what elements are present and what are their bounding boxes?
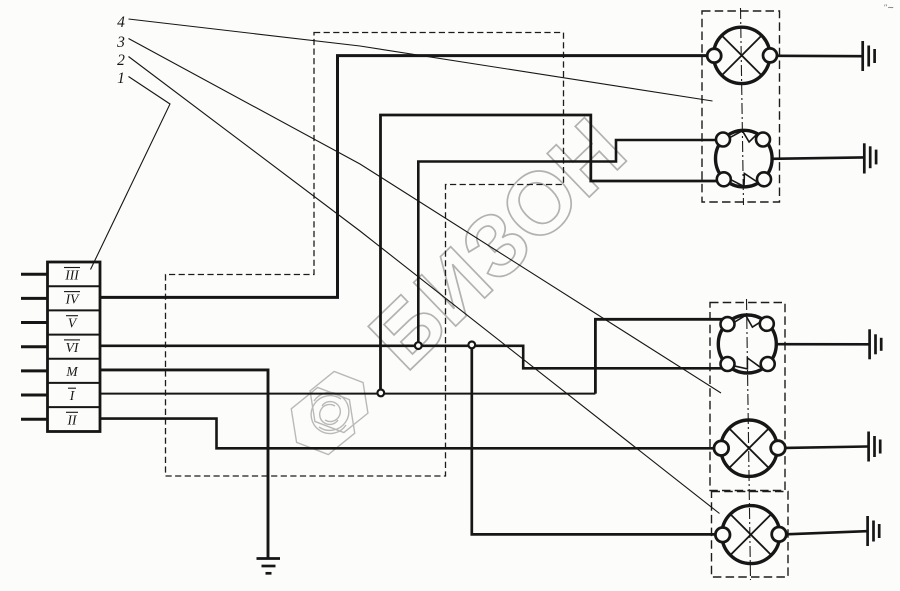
svg-text:1: 1 <box>117 70 125 87</box>
wire connector pin II to lamp L4 <box>100 419 715 449</box>
wire lamp L1 to ground G1 <box>777 54 862 57</box>
wire node J3 riser to lamp L2 lower filament <box>381 115 719 394</box>
axis centerline top lamps <box>741 8 744 205</box>
dashed lamp box bottom (lamp 5) <box>712 492 789 578</box>
watermark BIZON logo <box>281 366 378 461</box>
wire connector pin IV to lamp L1 <box>100 56 708 298</box>
junction node J3 <box>377 390 384 397</box>
leader line 1 <box>91 77 171 270</box>
leader line 2 <box>129 57 720 514</box>
ground G1 <box>863 41 875 71</box>
svg-text:II: II <box>67 412 78 427</box>
lamp L1 (headlamp, single filament) <box>707 27 777 83</box>
wire connector pin M to chassis ground <box>100 370 268 558</box>
wire node J2 drop to lamp L5 <box>472 346 716 535</box>
ground G2 <box>864 143 876 173</box>
wire node J1 riser to lamp L2 upper filament <box>418 140 716 346</box>
svg-text:2: 2 <box>117 52 125 69</box>
lamp L2 (two-filament) <box>716 130 773 187</box>
wire connector pin VI to lamp L3 lower filament <box>100 346 723 369</box>
watermark BIZON text <box>350 99 644 387</box>
connector block body <box>48 262 101 432</box>
dashed lamp box middle (lamps 3-4) <box>710 303 785 491</box>
ground G3 <box>870 329 882 359</box>
wire lamp L5 to ground G5 <box>786 531 867 534</box>
wire riser to lamp L3 upper filament <box>595 319 723 393</box>
svg-text:″∼: ″∼ <box>884 3 894 12</box>
connector terminal labels <box>64 268 80 428</box>
svg-text:M: M <box>65 364 78 379</box>
wire connector pin I horizontal run <box>100 393 595 395</box>
dashed lamp box top (lamps 1-2) <box>702 11 780 202</box>
ground G4 <box>869 432 881 462</box>
lamp L4 (single filament) <box>714 420 785 476</box>
terminal label overlines <box>64 268 80 413</box>
svg-text:3: 3 <box>116 34 125 51</box>
dashed harness polygon (center) <box>166 33 564 477</box>
connector cell dividers <box>48 286 101 407</box>
svg-text:IV: IV <box>65 292 80 307</box>
lamp L5 (single filament) <box>715 506 786 564</box>
axis centerline bottom lamps <box>747 299 751 580</box>
wire lamp L4 to ground G4 <box>785 447 868 448</box>
svg-text:4: 4 <box>117 14 125 31</box>
svg-text:БИЗОН: БИЗОН <box>350 99 644 387</box>
ground G5 <box>868 516 880 546</box>
leader line 3 <box>129 39 722 394</box>
svg-text:VI: VI <box>66 340 80 355</box>
connector left pin stubs <box>21 274 48 419</box>
leader line 4 <box>129 19 713 101</box>
lamp L3 (two-filament) <box>718 315 776 373</box>
wire lamp L3 to ground G3 <box>776 343 868 346</box>
wire lamp L2 to ground G2 <box>772 157 863 158</box>
junction node J2 <box>468 342 475 349</box>
svg-text:III: III <box>64 268 80 283</box>
junction node J1 <box>415 342 422 349</box>
chassis ground under M <box>257 559 281 574</box>
